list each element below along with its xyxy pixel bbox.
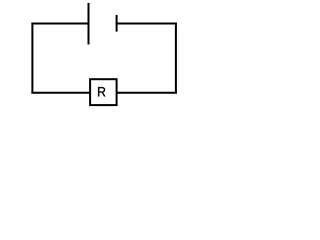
wire: top-right horizontal (battery - to right): [116, 23, 177, 25]
wire: left vertical: [31, 23, 33, 94]
wire: right vertical: [175, 23, 177, 94]
wire: bottom-right horizontal (resistor to right): [116, 92, 177, 94]
resistor R box: [90, 79, 117, 105]
wire: top-left horizontal (battery + to left): [31, 23, 89, 25]
battery B1 long plate (+): [88, 3, 90, 45]
battery B1 short plate (-): [116, 15, 118, 32]
wire: bottom-left horizontal (to resistor): [31, 92, 90, 94]
resistor label R: [98, 87, 105, 96]
